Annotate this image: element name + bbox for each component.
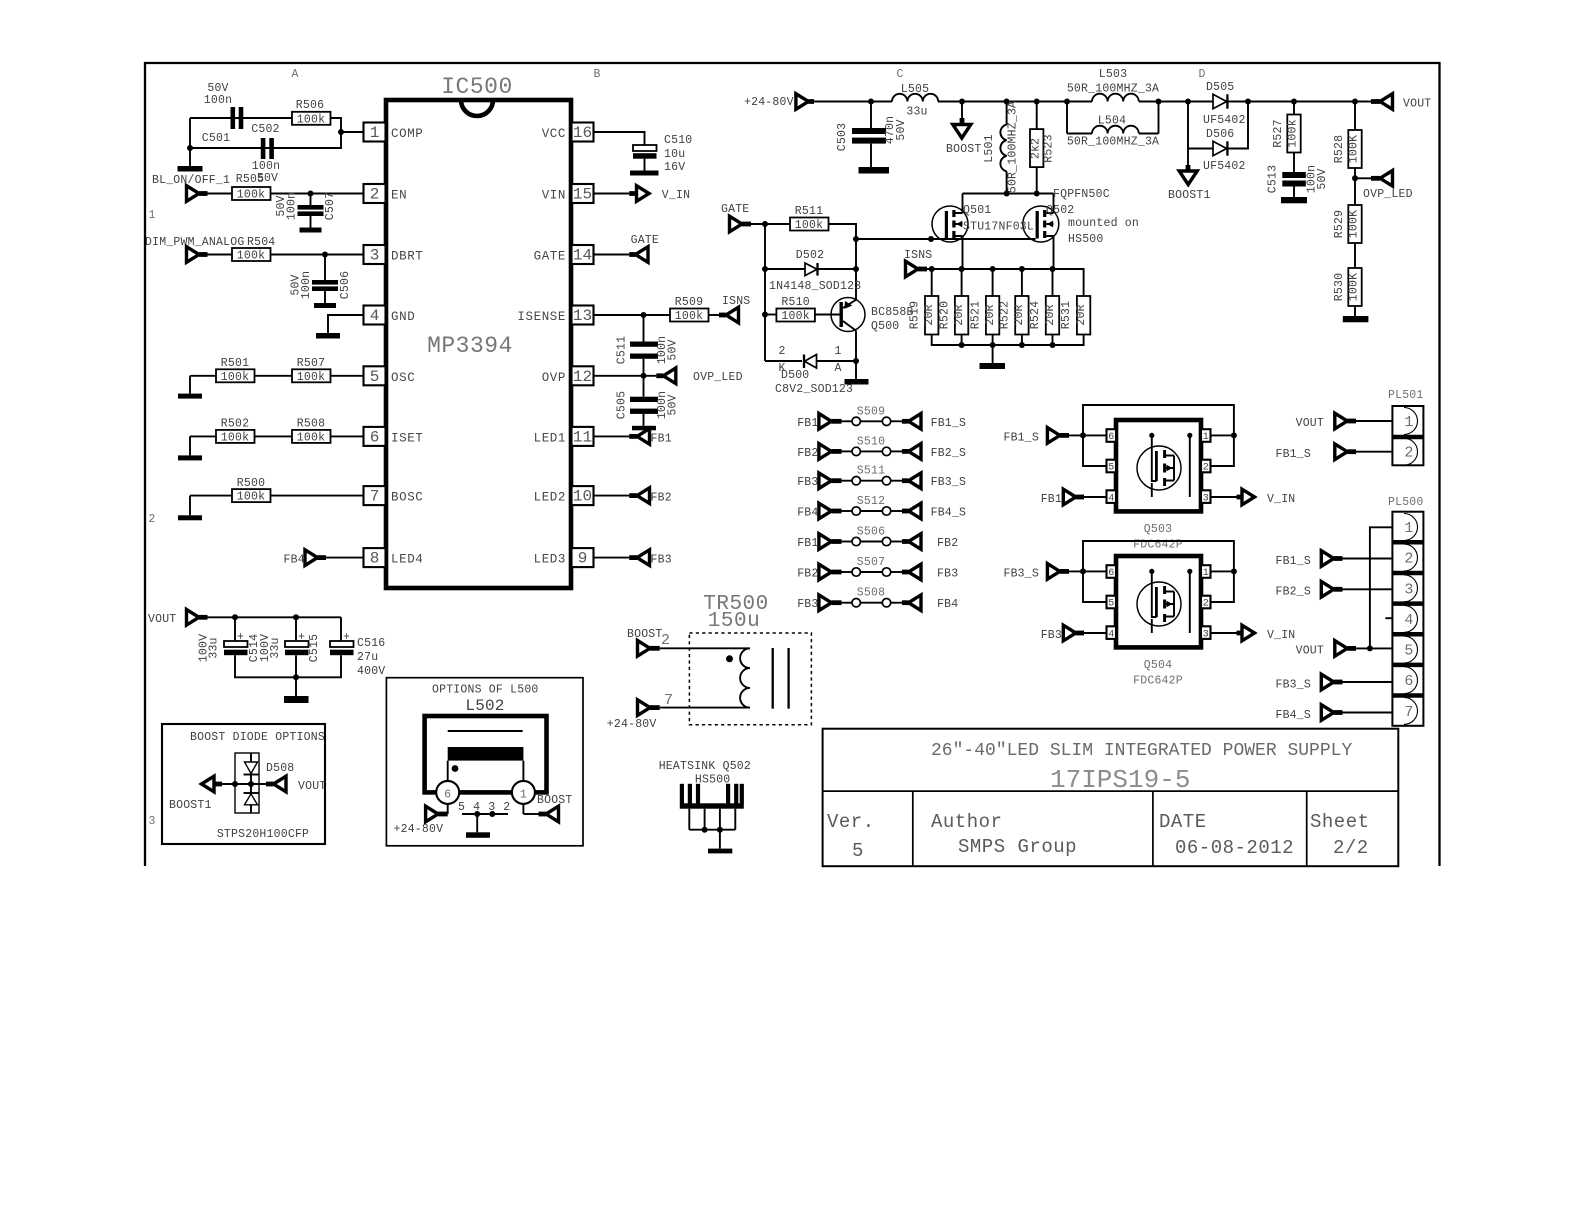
svg-text:FB3: FB3	[797, 598, 818, 611]
svg-text:C: C	[896, 68, 903, 81]
svg-text:20R: 20R	[953, 304, 966, 325]
svg-text:1: 1	[1404, 414, 1413, 431]
svg-text:A: A	[291, 68, 298, 81]
svg-text:C515: C515	[308, 634, 321, 662]
svg-text:R510: R510	[781, 296, 809, 309]
svg-text:33u: 33u	[208, 637, 221, 658]
svg-text:R506: R506	[296, 99, 324, 112]
svg-text:FB3: FB3	[797, 476, 818, 489]
svg-text:Q501: Q501	[963, 204, 991, 217]
svg-text:5: 5	[1404, 643, 1413, 660]
svg-text:D502: D502	[796, 249, 824, 262]
svg-text:FB4: FB4	[937, 598, 958, 611]
svg-text:C503: C503	[836, 123, 849, 151]
svg-text:6: 6	[1108, 432, 1114, 443]
svg-text:+24-80V: +24-80V	[394, 823, 444, 836]
svg-text:D500: D500	[781, 369, 809, 382]
svg-text:100k: 100k	[237, 189, 265, 202]
svg-text:3: 3	[1404, 581, 1413, 598]
svg-text:100K: 100K	[1348, 273, 1361, 301]
svg-text:UF5402: UF5402	[1203, 160, 1246, 173]
svg-text:L505: L505	[901, 83, 929, 96]
svg-text:Q500: Q500	[871, 320, 899, 333]
svg-text:L501: L501	[983, 134, 996, 162]
svg-text:+: +	[343, 631, 350, 644]
svg-text:50R_100MHZ_3A: 50R_100MHZ_3A	[1067, 136, 1159, 149]
svg-text:R508: R508	[297, 418, 325, 431]
svg-text:FB2: FB2	[651, 492, 672, 505]
svg-text:2: 2	[1404, 551, 1413, 568]
svg-text:BOOST DIODE OPTIONS: BOOST DIODE OPTIONS	[190, 731, 325, 744]
svg-text:+24-80V: +24-80V	[607, 718, 657, 731]
svg-text:+: +	[237, 631, 244, 644]
svg-text:1: 1	[1404, 520, 1413, 537]
svg-text:100k: 100k	[297, 113, 325, 126]
svg-text:3: 3	[1203, 493, 1209, 504]
svg-text:5: 5	[458, 801, 465, 814]
svg-text:06-08-2012: 06-08-2012	[1175, 837, 1294, 859]
svg-text:ISENSE: ISENSE	[517, 310, 566, 324]
svg-text:1: 1	[148, 209, 155, 222]
svg-text:1N4148_SOD123: 1N4148_SOD123	[769, 280, 861, 293]
svg-text:S511: S511	[857, 465, 885, 478]
svg-text:11: 11	[573, 428, 592, 446]
svg-text:PL501: PL501	[1388, 389, 1424, 402]
svg-text:DIM_PWM_ANALOG: DIM_PWM_ANALOG	[145, 236, 244, 249]
svg-text:2: 2	[1404, 445, 1413, 462]
svg-text:R511: R511	[795, 205, 823, 218]
svg-text:S508: S508	[857, 587, 885, 600]
svg-text:L504: L504	[1098, 115, 1126, 128]
svg-text:100k: 100k	[297, 431, 325, 444]
svg-text:33u: 33u	[269, 637, 282, 658]
svg-text:FB1_S: FB1_S	[931, 417, 967, 430]
svg-text:2: 2	[148, 513, 155, 526]
svg-text:26″-40″LED SLIM INTEGRATED POW: 26″-40″LED SLIM INTEGRATED POWER SUPPLY	[931, 741, 1352, 761]
svg-text:6: 6	[1108, 568, 1114, 579]
svg-text:OSC: OSC	[391, 371, 415, 385]
svg-text:LED2: LED2	[534, 491, 566, 505]
svg-text:VCC: VCC	[542, 127, 566, 141]
svg-text:3: 3	[1203, 629, 1209, 640]
svg-text:R519: R519	[909, 301, 922, 329]
svg-text:+24-80V: +24-80V	[744, 96, 794, 109]
svg-text:4: 4	[370, 307, 380, 325]
svg-text:BOSC: BOSC	[391, 491, 423, 505]
svg-text:100k: 100k	[1287, 119, 1300, 147]
svg-text:6: 6	[444, 788, 451, 801]
svg-text:FB4: FB4	[797, 507, 818, 520]
svg-text:15: 15	[573, 186, 592, 204]
svg-text:R507: R507	[297, 357, 325, 370]
svg-text:Ver.: Ver.	[827, 811, 875, 833]
svg-text:OVP_LED: OVP_LED	[1363, 188, 1413, 201]
svg-text:R524: R524	[1029, 301, 1042, 329]
svg-text:L503: L503	[1099, 68, 1127, 81]
svg-text:OVP_LED: OVP_LED	[693, 371, 743, 384]
svg-text:ISNS: ISNS	[904, 249, 932, 262]
svg-text:GATE: GATE	[534, 250, 566, 264]
svg-text:100k: 100k	[237, 250, 265, 263]
svg-text:27u: 27u	[357, 651, 378, 664]
svg-text:Q502: Q502	[1046, 204, 1074, 217]
svg-text:2k2: 2k2	[1030, 138, 1043, 159]
svg-text:5: 5	[852, 840, 864, 862]
svg-text:10: 10	[573, 488, 592, 506]
svg-text:50V: 50V	[667, 339, 680, 360]
svg-text:3: 3	[488, 801, 495, 814]
svg-text:10u: 10u	[664, 148, 685, 161]
svg-text:100k: 100k	[675, 310, 703, 323]
svg-text:OPTIONS OF L500: OPTIONS OF L500	[432, 684, 539, 697]
svg-text:100n: 100n	[286, 192, 299, 220]
svg-text:2: 2	[1203, 599, 1209, 610]
svg-text:100k: 100k	[221, 431, 249, 444]
svg-text:FB2_S: FB2_S	[1275, 586, 1311, 599]
svg-text:400V: 400V	[357, 665, 385, 678]
svg-text:FB1: FB1	[797, 537, 818, 550]
svg-text:2: 2	[370, 186, 380, 204]
svg-text:C506: C506	[339, 271, 352, 299]
svg-text:D: D	[1198, 68, 1205, 81]
svg-text:33u: 33u	[906, 106, 927, 119]
svg-text:50R_100MHZ_3A: 50R_100MHZ_3A	[1007, 101, 1020, 193]
svg-text:R504: R504	[247, 236, 275, 249]
svg-text:6: 6	[370, 428, 380, 446]
svg-text:ISNS: ISNS	[722, 295, 750, 308]
svg-text:DATE: DATE	[1159, 811, 1207, 833]
svg-text:FQPFN50C: FQPFN50C	[1053, 188, 1110, 201]
svg-text:L502: L502	[465, 697, 504, 715]
svg-text:BOOST: BOOST	[627, 628, 663, 641]
svg-text:BOOST1: BOOST1	[169, 799, 212, 812]
svg-text:R501: R501	[221, 357, 249, 370]
svg-text:PL500: PL500	[1388, 496, 1424, 509]
svg-text:MP3394: MP3394	[427, 333, 513, 359]
svg-text:100K: 100K	[1348, 210, 1361, 238]
svg-text:20R: 20R	[923, 304, 936, 325]
svg-text:BC858B: BC858B	[871, 306, 914, 319]
svg-text:FB3_S: FB3_S	[1003, 567, 1039, 580]
svg-text:D505: D505	[1206, 81, 1234, 94]
svg-text:FB2: FB2	[937, 537, 958, 550]
svg-text:FB4_S: FB4_S	[1275, 709, 1311, 722]
svg-text:1: 1	[834, 345, 841, 358]
svg-text:20R: 20R	[1075, 304, 1088, 325]
svg-text:50V: 50V	[667, 394, 680, 415]
svg-text:100k: 100k	[237, 491, 265, 504]
svg-text:4: 4	[1108, 493, 1114, 504]
svg-text:FB1: FB1	[651, 432, 672, 445]
svg-text:C511: C511	[616, 336, 629, 364]
svg-text:20R: 20R	[984, 304, 997, 325]
svg-text:C502: C502	[251, 123, 279, 136]
svg-text:DBRT: DBRT	[391, 250, 423, 264]
svg-text:20R: 20R	[1013, 304, 1026, 325]
svg-text:V_IN: V_IN	[1267, 493, 1295, 506]
svg-text:20R: 20R	[1044, 304, 1057, 325]
svg-text:GATE: GATE	[631, 234, 659, 247]
svg-text:VOUT: VOUT	[298, 780, 326, 793]
svg-text:D506: D506	[1206, 128, 1234, 141]
svg-text:FB2_S: FB2_S	[931, 447, 967, 460]
svg-text:S509: S509	[857, 405, 885, 418]
svg-text:S510: S510	[857, 435, 885, 448]
svg-text:R530: R530	[1333, 273, 1346, 301]
svg-text:S506: S506	[857, 526, 885, 539]
svg-text:C8V2_SOD123: C8V2_SOD123	[775, 383, 853, 396]
svg-text:150u: 150u	[708, 610, 760, 633]
svg-text:4: 4	[473, 801, 480, 814]
svg-text:VOUT: VOUT	[148, 613, 176, 626]
svg-text:VOUT: VOUT	[1296, 417, 1324, 430]
svg-text:C510: C510	[664, 134, 692, 147]
svg-text:ISET: ISET	[391, 431, 423, 445]
svg-text:FB1_S: FB1_S	[1003, 431, 1039, 444]
svg-text:FB3_S: FB3_S	[1275, 678, 1311, 691]
svg-text:UF5402: UF5402	[1203, 114, 1246, 127]
svg-text:100k: 100k	[781, 310, 809, 323]
svg-text:R502: R502	[221, 418, 249, 431]
svg-text:FDC642P: FDC642P	[1133, 675, 1183, 688]
svg-text:50R_100MHZ_3A: 50R_100MHZ_3A	[1067, 83, 1159, 96]
svg-text:12: 12	[573, 368, 592, 386]
svg-text:4: 4	[1108, 629, 1114, 640]
svg-text:SMPS Group: SMPS Group	[958, 836, 1077, 858]
svg-text:C505: C505	[616, 391, 629, 419]
svg-text:R509: R509	[675, 296, 703, 309]
svg-text:FB2: FB2	[797, 447, 818, 460]
svg-text:STPS20H100CFP: STPS20H100CFP	[217, 828, 309, 841]
svg-text:+: +	[298, 631, 305, 644]
svg-text:1: 1	[1203, 432, 1209, 443]
svg-text:IC500: IC500	[441, 74, 513, 100]
svg-text:17IPS19-5: 17IPS19-5	[1050, 765, 1190, 795]
svg-text:STU17NF03L: STU17NF03L	[963, 221, 1034, 234]
svg-text:R522: R522	[999, 301, 1012, 329]
svg-text:1: 1	[370, 124, 380, 142]
svg-text:FB3: FB3	[1041, 629, 1062, 642]
svg-text:HS500: HS500	[695, 774, 731, 787]
svg-text:V_IN: V_IN	[662, 189, 690, 202]
svg-text:LED3: LED3	[534, 553, 566, 567]
svg-text:FB1_S: FB1_S	[1275, 555, 1311, 568]
svg-text:2: 2	[1203, 463, 1209, 474]
svg-text:BOOST: BOOST	[946, 143, 982, 156]
svg-text:EN: EN	[391, 189, 407, 203]
svg-text:FB1: FB1	[1041, 493, 1062, 506]
svg-text:Sheet: Sheet	[1310, 811, 1370, 833]
svg-text:2: 2	[503, 801, 510, 814]
svg-text:5: 5	[1108, 463, 1114, 474]
svg-text:100K: 100K	[1348, 135, 1361, 163]
svg-text:R520: R520	[939, 301, 952, 329]
svg-text:OVP: OVP	[542, 371, 566, 385]
svg-text:7: 7	[1404, 704, 1413, 721]
svg-text:7: 7	[370, 488, 380, 506]
svg-text:VIN: VIN	[542, 189, 566, 203]
svg-text:S507: S507	[857, 556, 885, 569]
svg-text:14: 14	[573, 247, 592, 265]
svg-text:16V: 16V	[664, 161, 685, 174]
svg-text:8: 8	[370, 550, 380, 568]
svg-text:2: 2	[778, 345, 785, 358]
svg-text:A: A	[834, 362, 841, 375]
svg-text:S512: S512	[857, 495, 885, 508]
svg-text:R523: R523	[1043, 134, 1056, 162]
svg-text:C513: C513	[1267, 165, 1280, 193]
svg-text:Q503: Q503	[1144, 523, 1172, 536]
svg-text:6: 6	[1404, 673, 1413, 690]
svg-text:C501: C501	[202, 132, 230, 145]
svg-text:100k: 100k	[297, 371, 325, 384]
svg-text:BL_ON/OFF_1: BL_ON/OFF_1	[152, 174, 230, 187]
svg-text:9: 9	[578, 550, 588, 568]
svg-text:GATE: GATE	[721, 203, 749, 216]
svg-text:V_IN: V_IN	[1267, 629, 1295, 642]
svg-text:FB1_S: FB1_S	[1275, 448, 1311, 461]
svg-text:HEATSINK Q502: HEATSINK Q502	[659, 760, 751, 773]
svg-text:1: 1	[1203, 568, 1209, 579]
svg-text:Q504: Q504	[1144, 659, 1172, 672]
svg-text:3: 3	[148, 815, 155, 828]
svg-text:5: 5	[1108, 599, 1114, 610]
svg-text:HS500: HS500	[1068, 233, 1104, 246]
svg-text:VOUT: VOUT	[1296, 645, 1324, 658]
svg-text:R529: R529	[1333, 210, 1346, 238]
svg-text:2: 2	[661, 632, 670, 649]
svg-text:R531: R531	[1060, 301, 1073, 329]
svg-text:7: 7	[664, 692, 673, 709]
svg-text:VOUT: VOUT	[1403, 98, 1431, 111]
svg-text:R500: R500	[237, 477, 265, 490]
svg-text:D508: D508	[266, 762, 294, 775]
svg-text:16: 16	[573, 124, 592, 142]
svg-text:mounted on: mounted on	[1068, 217, 1139, 230]
svg-text:100n: 100n	[300, 271, 313, 299]
svg-text:FB4_S: FB4_S	[931, 507, 967, 520]
svg-text:LED1: LED1	[534, 431, 566, 445]
svg-text:100n: 100n	[204, 94, 232, 107]
svg-text:R505: R505	[236, 173, 264, 186]
svg-text:LED4: LED4	[391, 553, 423, 567]
svg-text:FB3: FB3	[937, 568, 958, 581]
svg-text:GND: GND	[391, 310, 415, 324]
svg-text:100k: 100k	[795, 219, 823, 232]
svg-text:2/2: 2/2	[1333, 837, 1369, 859]
svg-text:Author: Author	[931, 811, 1002, 833]
svg-text:COMP: COMP	[391, 127, 423, 141]
svg-text:FB3_S: FB3_S	[931, 476, 967, 489]
svg-text:50V: 50V	[1316, 168, 1329, 189]
svg-text:3: 3	[370, 247, 380, 265]
svg-text:100k: 100k	[221, 371, 249, 384]
svg-text:R527: R527	[1272, 119, 1285, 147]
svg-text:R521: R521	[970, 301, 983, 329]
svg-text:13: 13	[573, 307, 592, 325]
svg-text:C507: C507	[324, 192, 337, 220]
svg-text:50V: 50V	[895, 119, 908, 140]
svg-text:BOOST: BOOST	[537, 794, 573, 807]
svg-text:FB3: FB3	[651, 554, 672, 567]
svg-text:4: 4	[1404, 612, 1413, 629]
svg-text:B: B	[593, 68, 600, 81]
svg-text:BOOST1: BOOST1	[1168, 189, 1211, 202]
svg-text:FB2: FB2	[797, 568, 818, 581]
svg-text:C516: C516	[357, 637, 385, 650]
svg-text:R528: R528	[1333, 135, 1346, 163]
svg-text:1: 1	[520, 788, 527, 801]
svg-text:5: 5	[370, 368, 380, 386]
svg-text:FB4: FB4	[284, 554, 305, 567]
svg-text:FB1: FB1	[797, 417, 818, 430]
